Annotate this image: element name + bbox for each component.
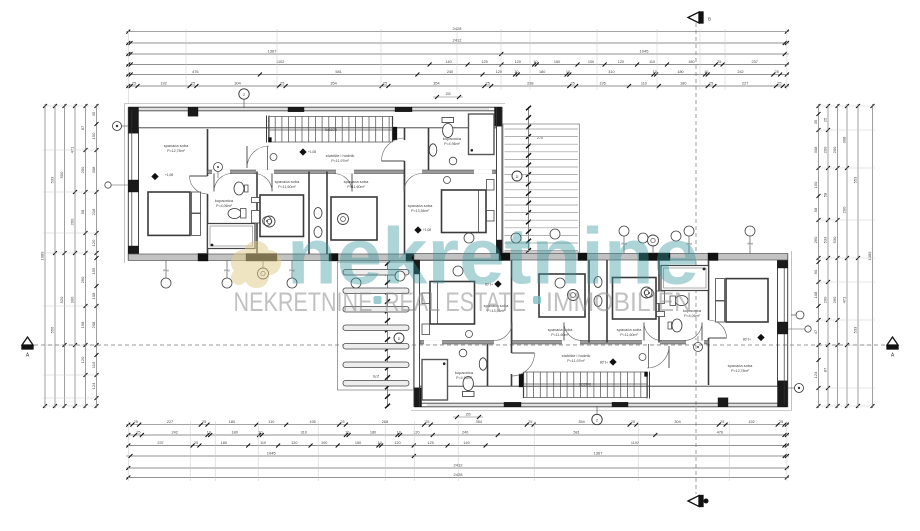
svg-text:150: 150 [465, 413, 471, 417]
bottom dimension chain line 6 (2428) [126, 477, 789, 479]
svg-text:90: 90 [813, 269, 818, 274]
svg-text:25: 25 [720, 420, 724, 424]
svg-text:10: 10 [378, 441, 382, 445]
svg-text:spavaća soba: spavaća soba [408, 203, 433, 208]
grid bubble mid-left [512, 171, 522, 181]
svg-text:260: 260 [813, 236, 818, 243]
unit B pergola (bars) [338, 262, 414, 390]
svg-text:125: 125 [481, 60, 487, 64]
svg-text:195: 195 [599, 81, 605, 85]
svg-text:spavaća soba: spavaća soba [548, 327, 573, 332]
svg-text:58: 58 [80, 209, 85, 214]
sewer symbol circle mirrored [652, 246, 654, 254]
svg-text:1089: 1089 [39, 251, 44, 261]
grid bubble top [243, 99, 245, 108]
svg-text:58: 58 [813, 207, 818, 212]
left dimension chain x=55 [54, 104, 56, 408]
right dimension chain x=828 [827, 104, 829, 408]
svg-text:110: 110 [91, 361, 96, 368]
svg-text:2412: 2412 [453, 37, 463, 42]
small dimension below unit B wall [453, 416, 483, 418]
svg-text:108: 108 [91, 292, 96, 299]
svg-text:476: 476 [717, 430, 723, 434]
svg-text:25: 25 [775, 70, 779, 74]
svg-text:P=11,60m²: P=11,60m² [278, 185, 296, 189]
svg-text:110: 110 [260, 441, 266, 445]
unit A fan symbol bed3 [338, 214, 349, 225]
svg-text:P=4,06m²: P=4,06m² [216, 204, 232, 208]
unit A left wall piers [128, 180, 138, 192]
unit A leader circle near wall [105, 182, 111, 188]
svg-text:1367: 1367 [594, 450, 604, 455]
unit A door bathroom top [382, 160, 405, 162]
svg-text:P=4,96m²: P=4,96m² [456, 376, 472, 380]
svg-text:150: 150 [355, 441, 361, 445]
svg-text:25: 25 [134, 420, 138, 424]
svg-text:IMMOBILIEN: IMMOBILIEN [546, 287, 692, 317]
svg-text:P=4,96m²: P=4,96m² [444, 142, 460, 146]
unit A right wall piers [497, 240, 503, 254]
unit A grid bubble near wall [113, 122, 122, 131]
svg-text:120: 120 [291, 441, 297, 445]
svg-text:218: 218 [91, 208, 96, 215]
svg-text:1102: 1102 [631, 441, 639, 445]
svg-text:10: 10 [258, 430, 262, 434]
unit A terrace deck (striped) [503, 124, 580, 252]
section line B-B vertical dashed [695, 23, 697, 494]
misc leader circles [351, 278, 361, 288]
unit A bottom wall piers [198, 254, 208, 262]
svg-text:25: 25 [202, 420, 206, 424]
svg-text:10: 10 [397, 430, 401, 434]
section marker B bottom [688, 496, 699, 507]
svg-text:308: 308 [91, 166, 96, 173]
svg-text:120: 120 [515, 60, 521, 64]
svg-text:kupaonica: kupaonica [455, 370, 474, 375]
unit A bathtub bath1 [208, 224, 256, 249]
svg-text:581: 581 [573, 430, 579, 434]
unit A symbol circle 1 [214, 163, 223, 172]
unit A fan symbol bed2 [264, 216, 275, 227]
unit A bathroom symbol circle [449, 157, 457, 165]
unit A bathroom wall [428, 128, 430, 170]
svg-text:308: 308 [813, 146, 818, 153]
svg-text:180: 180 [688, 60, 694, 64]
svg-text:240: 240 [447, 70, 453, 74]
top dimension chain line 3 (1367/1045) [126, 53, 789, 55]
left dimension chain x=85.5 [85, 104, 87, 408]
unit A master small circle [444, 177, 451, 184]
left dimension chain x=45 [44, 104, 46, 408]
svg-text:10: 10 [533, 60, 537, 64]
svg-text:110: 110 [641, 81, 647, 85]
small dimension above unit A wall [433, 96, 463, 98]
watermark tagline [234, 287, 693, 317]
svg-text:200: 200 [80, 166, 85, 173]
svg-text:P=11,97m²: P=11,97m² [331, 159, 349, 163]
watermark logo + nekretnine [231, 241, 281, 288]
svg-text:P=11,60m²: P=11,60m² [347, 185, 365, 189]
svg-text:288: 288 [382, 420, 388, 424]
svg-text:+1,08: +1,08 [165, 173, 173, 177]
svg-text:spavaća soba: spavaća soba [275, 179, 300, 184]
svg-text:47: 47 [813, 329, 818, 334]
svg-text:kupaonica: kupaonica [215, 198, 234, 203]
svg-text:310: 310 [608, 70, 614, 74]
svg-text:58: 58 [822, 192, 827, 197]
svg-text:550: 550 [59, 171, 64, 178]
svg-text:25: 25 [709, 81, 713, 85]
svg-text:108: 108 [813, 291, 818, 298]
svg-text:2: 2 [596, 418, 598, 422]
svg-text:25: 25 [280, 81, 284, 85]
unit A wc top bathroom [443, 124, 453, 138]
unit A right wall [496, 107, 498, 254]
unit A bed 3 [331, 197, 377, 240]
unit A left wall [127, 107, 129, 260]
svg-text:25: 25 [132, 81, 136, 85]
unit A interior vertical dimension chain [528, 107, 530, 252]
svg-text:25: 25 [528, 420, 532, 424]
svg-text:120: 120 [394, 441, 400, 445]
svg-text:200: 200 [822, 296, 827, 303]
unit A door bed2 [271, 174, 273, 192]
svg-text:553: 553 [852, 176, 857, 183]
svg-text:25: 25 [779, 420, 783, 424]
svg-text:124: 124 [91, 382, 96, 389]
top dimension chain line 4 [126, 64, 789, 66]
unit A plumbing leader circles [165, 261, 167, 279]
svg-text:P=11,97m²: P=11,97m² [567, 359, 585, 363]
svg-text:10: 10 [566, 70, 570, 74]
svg-text:25: 25 [425, 420, 429, 424]
svg-text:spavaća soba: spavaća soba [344, 179, 369, 184]
svg-text:155: 155 [91, 267, 96, 274]
svg-text:NEKRETNINE: NEKRETNINE [234, 287, 373, 317]
unit A door bedroom1 [190, 175, 208, 177]
svg-text:304: 304 [234, 81, 240, 85]
unit A master bed [442, 190, 487, 233]
svg-text:227: 227 [742, 81, 748, 85]
unit A level marker 1 [151, 173, 158, 180]
svg-text:180: 180 [539, 70, 545, 74]
svg-text:10: 10 [704, 70, 708, 74]
svg-text:237: 237 [157, 441, 163, 445]
svg-text:10: 10 [653, 70, 657, 74]
unit A wall bed3/master [404, 128, 406, 140]
unit A master nightstands [487, 180, 495, 191]
svg-text:10: 10 [345, 430, 349, 434]
svg-text:533: 533 [852, 326, 857, 333]
svg-text:spavaća soba: spavaća soba [617, 327, 642, 332]
svg-text:100: 100 [588, 60, 594, 64]
svg-text:P=0: P=0 [163, 269, 169, 273]
right dimension chain x=858 [857, 104, 859, 408]
unit A wall bed2/bath2 [308, 172, 310, 255]
left dimension chain x=64.5 [64, 104, 66, 408]
right extension lines [816, 105, 875, 107]
svg-text:180: 180 [680, 81, 686, 85]
svg-text:533: 533 [49, 176, 54, 183]
svg-text:200: 200 [832, 146, 837, 153]
bottom dimension chain line 2 [126, 434, 789, 436]
svg-text:180: 180 [221, 441, 227, 445]
unit A level marker 2 [299, 148, 306, 155]
svg-text:P=12,78m²: P=12,78m² [167, 149, 185, 153]
top extension lines [127, 29, 129, 90]
svg-text:D: D [516, 175, 519, 179]
unit A staircase [269, 116, 393, 118]
unit A door bath1 [213, 174, 215, 192]
svg-text:195: 195 [309, 420, 315, 424]
svg-text:1045: 1045 [640, 48, 650, 53]
svg-text:110: 110 [649, 60, 655, 64]
svg-text:D: D [398, 337, 401, 341]
unit A top wall piers [128, 107, 138, 133]
svg-text:533: 533 [822, 236, 827, 243]
svg-text:208: 208 [91, 321, 96, 328]
top dimension chain line 2 (2412) [126, 42, 789, 44]
top dimension chain line 5 [126, 74, 789, 76]
svg-text:124: 124 [813, 371, 818, 378]
svg-text:227: 227 [167, 420, 173, 424]
right dimension chain x=818.5 [818, 104, 820, 408]
svg-text:P=11,60m²: P=11,60m² [551, 333, 569, 337]
right dimension chain x=847 [846, 104, 848, 408]
svg-text:581: 581 [335, 70, 341, 74]
svg-text:290: 290 [841, 206, 846, 213]
section line A-A horizontal dashed [34, 344, 886, 346]
unit A wall left of stairs [266, 116, 268, 143]
svg-text:520: 520 [59, 296, 64, 303]
svg-text:158: 158 [80, 321, 85, 328]
svg-text:556: 556 [49, 326, 54, 333]
svg-text:25: 25 [717, 60, 721, 64]
svg-text:354: 354 [578, 420, 584, 424]
svg-text:476: 476 [192, 70, 198, 74]
svg-text:237: 237 [752, 60, 758, 64]
unit A stair right wall [392, 116, 394, 142]
unit A (upper-left apartment) [105, 104, 543, 289]
svg-text:300: 300 [69, 296, 74, 303]
svg-text:25: 25 [383, 81, 387, 85]
svg-text:192: 192 [160, 81, 166, 85]
svg-text:2428: 2428 [453, 26, 463, 31]
grid bubble bottom [596, 406, 598, 414]
unit A door master [403, 174, 405, 192]
unit A hall wall horizontal [208, 170, 497, 174]
unit B (lower-right apartment, 180deg copy) [373, 226, 811, 411]
unit A level marker 3 [414, 226, 421, 233]
svg-text:308: 308 [841, 136, 846, 143]
svg-text:125: 125 [427, 441, 433, 445]
unit A fixtures bath2 [314, 208, 322, 219]
svg-text:150: 150 [554, 60, 560, 64]
svg-text:spavaća soba: spavaća soba [728, 363, 753, 368]
unit A bed 2 [260, 195, 304, 237]
right dimension chain x=837.5 [837, 104, 839, 408]
svg-text:10: 10 [514, 70, 518, 74]
svg-text:87: 87 [822, 367, 827, 372]
section marker A right [887, 337, 898, 345]
svg-text:530: 530 [832, 236, 837, 243]
svg-text:180: 180 [677, 70, 683, 74]
left extension lines [43, 105, 99, 107]
svg-text:304: 304 [674, 420, 680, 424]
svg-text:110: 110 [268, 420, 274, 424]
svg-text:288: 288 [527, 81, 533, 85]
svg-text:1089: 1089 [867, 251, 872, 261]
svg-text:240: 240 [462, 430, 468, 434]
unit A symbol circle 3 [263, 217, 272, 226]
unit A symbol circle 2 [270, 154, 277, 161]
top dimension chain line 1 (2428) [126, 31, 789, 33]
svg-text:140: 140 [463, 441, 469, 445]
unit A bottom (party) wall [128, 254, 502, 261]
svg-text:140: 140 [445, 60, 451, 64]
right dimension chain x=872.5 [872, 104, 874, 408]
unit A door bed3 [351, 174, 353, 192]
unit A wc bath1 [228, 209, 241, 219]
unit A headboard/nightstands bed1 [192, 192, 201, 213]
unit A wall bath2/bed3 [326, 172, 328, 255]
svg-text:100: 100 [321, 441, 327, 445]
svg-text:354: 354 [433, 81, 439, 85]
svg-text:354: 354 [476, 420, 482, 424]
svg-text:471: 471 [69, 146, 74, 153]
svg-text:REAL ESTATE: REAL ESTATE [384, 287, 526, 317]
bottom dimension chain line 5 (2412) [126, 467, 789, 469]
svg-text:25: 25 [486, 81, 490, 85]
svg-text:stubište i hodnik: stubište i hodnik [326, 153, 355, 158]
unit A wall bath1/bed2 [256, 172, 258, 255]
svg-text:8x18/25: 8x18/25 [325, 128, 337, 132]
svg-text:1045: 1045 [267, 450, 277, 455]
svg-text:25: 25 [136, 430, 140, 434]
svg-text:87: 87 [80, 125, 85, 130]
unit A nightstands bed2 [252, 198, 260, 203]
svg-text:kupaonica: kupaonica [443, 136, 462, 141]
svg-text:242: 242 [737, 70, 743, 74]
svg-text:1367: 1367 [268, 48, 278, 53]
svg-text:P=11,60m²: P=11,60m² [620, 333, 638, 337]
grid bubble mid-right [394, 333, 404, 343]
left dimension chain x=96.5 [96, 104, 98, 408]
svg-text:150: 150 [445, 92, 451, 96]
section marker A left [22, 337, 33, 345]
section marker B top [688, 12, 699, 23]
svg-text:120: 120 [618, 60, 624, 64]
svg-text:P=12,78m²: P=12,78m² [731, 369, 749, 373]
left dimension chain x=75 [74, 104, 76, 408]
svg-text:25: 25 [631, 420, 635, 424]
unit A shower [469, 114, 495, 155]
svg-text:2: 2 [243, 93, 245, 97]
sewer symbol circle [262, 261, 264, 269]
unit A sink top bathroom [429, 144, 437, 156]
svg-text:P=0: P=0 [224, 269, 230, 273]
svg-text:35: 35 [813, 119, 818, 124]
svg-text:180: 180 [229, 420, 235, 424]
svg-text:354: 354 [330, 81, 336, 85]
unit A wall bedroom1/hall [207, 129, 209, 176]
svg-text:260: 260 [69, 218, 74, 225]
bottom extension lines [786, 421, 788, 481]
svg-text:25: 25 [571, 81, 575, 85]
unit A top wall [128, 106, 502, 108]
unit A bed 1 [148, 192, 190, 235]
bottom dimension chain line 1 [126, 424, 789, 426]
svg-text:B: B [708, 17, 711, 22]
svg-text:242: 242 [172, 430, 178, 434]
svg-text:+1,08: +1,08 [308, 150, 316, 154]
bottom dimension chain line 3 [126, 445, 789, 447]
svg-text:10: 10 [207, 430, 211, 434]
svg-text:180: 180 [370, 430, 376, 434]
svg-text:25: 25 [191, 81, 195, 85]
svg-text:260: 260 [832, 296, 837, 303]
bottom dimension chain line 4 (1045/1367) [126, 455, 789, 457]
svg-text:25: 25 [194, 441, 198, 445]
unit A door hall arc [246, 146, 248, 168]
svg-text:192: 192 [748, 420, 754, 424]
svg-text:310: 310 [301, 430, 307, 434]
svg-text:150: 150 [813, 181, 818, 188]
svg-text:120: 120 [91, 239, 96, 246]
svg-text:290: 290 [80, 276, 85, 283]
top dimension chain line 6 [126, 85, 789, 87]
svg-text:spavaća soba: spavaća soba [164, 143, 189, 148]
svg-text:120: 120 [80, 356, 85, 363]
svg-text:stubište i hodnik: stubište i hodnik [562, 353, 591, 358]
unit A roof overhang line [125, 103, 506, 105]
svg-text:471: 471 [841, 296, 846, 303]
unit A sink bath1 [234, 182, 244, 195]
svg-text:35: 35 [91, 111, 96, 116]
svg-text:1102: 1102 [276, 60, 284, 64]
leader circle right of plan [796, 311, 804, 319]
svg-text:180: 180 [232, 430, 238, 434]
svg-text:200: 200 [822, 146, 827, 153]
svg-text:25: 25 [777, 81, 781, 85]
svg-text:150: 150 [91, 132, 96, 139]
svg-text:25: 25 [822, 117, 827, 122]
svg-text:25: 25 [340, 420, 344, 424]
